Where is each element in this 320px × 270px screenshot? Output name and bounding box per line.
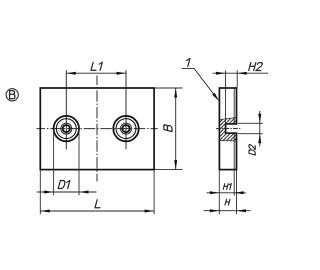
- broken-out section hatched region: [220, 117, 235, 141]
- hole 1 thread circle: [61, 123, 72, 134]
- plate outline (front view): [40, 88, 154, 170]
- dimension B bottom extension line: [155, 169, 183, 171]
- view label circle B: [6, 89, 18, 101]
- side view body outline: [219, 88, 236, 170]
- L1 left arrow: [66, 72, 76, 75]
- dimension L right extension line: [153, 171, 155, 215]
- B bottom arrow: [174, 160, 177, 170]
- bore centerline: [216, 128, 241, 130]
- hole 2 vertical centerline / L1 extension: [125, 70, 127, 149]
- D2 top arrow: [258, 114, 261, 124]
- H label: [225, 199, 230, 205]
- B top arrow: [174, 88, 177, 98]
- bore bottom face vertical edge: [225, 123, 227, 134]
- side view inner step line lower segment: [233, 134, 235, 170]
- hole 2 counterbore circle: [113, 116, 138, 141]
- L label: [95, 200, 102, 208]
- D2 bottom arrow: [258, 134, 261, 144]
- dimension H1 left extension line (left face extended): [218, 171, 220, 215]
- hole 1 vertical centerline / L1 extension: [65, 70, 67, 149]
- dimension L line: [40, 210, 154, 212]
- L1 label: [91, 62, 102, 70]
- H2 left arrow: [216, 72, 226, 75]
- H2 label: [249, 63, 263, 71]
- part leader arrow: [212, 93, 219, 102]
- L1 right arrow: [117, 72, 127, 75]
- part leader diagonal line: [194, 68, 216, 97]
- hole 1 chamfer circle: [56, 119, 76, 139]
- dimension D2 bottom extension line: [238, 133, 263, 135]
- H right arrow: [237, 209, 247, 212]
- hole 1 bore circle: [63, 125, 70, 132]
- section break line bottom: [220, 139, 235, 142]
- bore white interior: [226, 125, 237, 133]
- dimension B top extension line: [155, 87, 183, 89]
- D1 right arrow: [79, 191, 89, 194]
- L right arrow: [145, 210, 155, 213]
- dimension D2 line: [259, 111, 261, 147]
- H1 label: [223, 184, 231, 190]
- hole 1 counterbore circle: [54, 116, 79, 141]
- H left arrow: [210, 209, 220, 212]
- H2 right arrow: [237, 72, 247, 75]
- L left arrow: [40, 210, 50, 213]
- part leader 1 label: [185, 58, 190, 66]
- dimension D2 top extension line: [238, 122, 263, 124]
- dimension L left extension line: [39, 171, 41, 215]
- part leader shoulder line: [182, 67, 195, 69]
- dimension D1 right extension line: [78, 130, 80, 196]
- dimension H2 left extension line: [225, 70, 227, 123]
- dimension H1 right extension line: [233, 171, 235, 196]
- dimension L1 line: [66, 72, 126, 74]
- D1 left arrow: [44, 191, 54, 194]
- hole 2 thread circle: [121, 123, 132, 134]
- vertical centerline plate middle: [96, 76, 98, 182]
- D1 label: [58, 181, 70, 189]
- dimension H right extension line: [236, 171, 238, 215]
- dimension H2 line: [213, 72, 269, 74]
- section break line top: [220, 117, 235, 119]
- D2 label: [249, 144, 255, 155]
- dimension H1 line: [207, 192, 246, 194]
- hole 2 bore circle: [122, 125, 129, 132]
- dimension H line: [204, 210, 251, 212]
- H1 right arrow: [234, 191, 244, 194]
- H1 left arrow: [210, 191, 220, 194]
- bore top edge: [226, 123, 238, 125]
- horizontal centerline through holes (front view): [37, 128, 158, 130]
- B label: [164, 124, 172, 131]
- dimension D1 line: [37, 191, 97, 193]
- bore bottom edge: [226, 132, 238, 134]
- dimension D1 left extension line: [53, 130, 55, 196]
- hole 2 chamfer circle: [116, 119, 136, 139]
- dimension B line: [175, 88, 177, 170]
- dimension H2 right extension line: [236, 70, 238, 87]
- side view inner step line upper segment: [233, 88, 235, 123]
